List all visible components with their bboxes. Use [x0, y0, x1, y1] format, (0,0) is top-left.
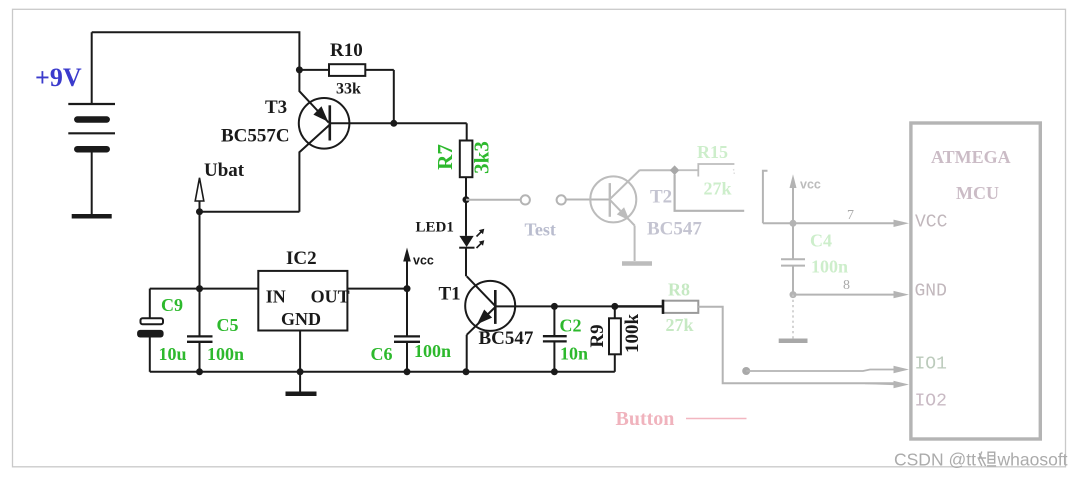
svg-text:C5: C5 — [217, 315, 239, 335]
transistor T1 BC547 — [439, 276, 534, 372]
wire vcc branch vertical — [763, 171, 768, 224]
svg-text:OUT: OUT — [311, 286, 350, 306]
vcc arrow (black) — [403, 248, 434, 289]
svg-text:Test: Test — [525, 220, 556, 240]
node junction at R10/T3 emitter — [296, 66, 303, 73]
regulator IC2 — [258, 248, 349, 331]
resistor R15 (faded) — [679, 142, 735, 199]
resistor R9 — [587, 306, 643, 371]
svg-text:vcc: vcc — [800, 178, 821, 192]
svg-text:BC557C: BC557C — [221, 126, 290, 147]
wire R8 to IO2 — [698, 307, 897, 384]
node vcc/C6 — [404, 285, 411, 292]
svg-text:100k: 100k — [622, 314, 643, 354]
capacitor C6 — [371, 289, 452, 372]
svg-text:T2: T2 — [650, 187, 672, 208]
svg-text:+9V: +9V — [35, 63, 82, 92]
svg-text:7: 7 — [847, 208, 854, 223]
wire IO1 — [746, 370, 897, 372]
node IC2 input — [196, 285, 203, 292]
node IO1 start dot — [742, 367, 750, 375]
wire base row — [330, 122, 467, 124]
node C4/GND row — [790, 291, 797, 298]
wire IC2 OUT to vcc node — [347, 288, 407, 290]
wire bottom ground rail — [150, 371, 615, 373]
node R9 top — [611, 303, 618, 310]
svg-text:vcc: vcc — [413, 254, 434, 268]
node rail C2 — [551, 368, 558, 375]
svg-text:IN: IN — [266, 286, 286, 306]
capacitor C9 — [137, 289, 186, 372]
node rail T1 emitter — [463, 368, 470, 375]
svg-text:VCC: VCC — [915, 212, 948, 232]
ground IC2 — [286, 392, 317, 397]
node rail C5 — [196, 368, 203, 375]
transistor T3 BC557C — [221, 70, 349, 212]
svg-text:ATMEGA: ATMEGA — [931, 147, 1011, 167]
svg-text:IC2: IC2 — [286, 248, 317, 269]
svg-text:C2: C2 — [560, 316, 582, 336]
wire input node row — [150, 288, 258, 290]
svg-text:T1: T1 — [439, 284, 461, 305]
wire diamond to stub — [675, 175, 745, 211]
svg-text:R9: R9 — [587, 324, 608, 347]
svg-text:IO2: IO2 — [915, 392, 947, 412]
capacitor C5 — [187, 289, 244, 372]
svg-text:GND: GND — [281, 309, 321, 329]
svg-text:LED1: LED1 — [416, 220, 454, 236]
svg-text:100n: 100n — [414, 341, 451, 361]
node base of T3 — [390, 120, 397, 127]
node rail IC2 gnd — [297, 368, 304, 375]
svg-text:27k: 27k — [704, 179, 732, 199]
svg-text:3k3: 3k3 — [469, 141, 493, 174]
svg-text:R7: R7 — [433, 144, 457, 170]
wire IO2 end segment — [865, 383, 897, 384]
resistor R7 — [433, 123, 494, 199]
battery B1 — [68, 32, 115, 216]
LED1 — [416, 200, 485, 277]
svg-text:10u: 10u — [159, 344, 187, 364]
wire T1 collector row — [495, 305, 663, 307]
watermark glyph jie — [978, 452, 997, 467]
pin arrow GND — [894, 291, 910, 298]
svg-text:R8: R8 — [668, 280, 690, 300]
svg-text:Ubat: Ubat — [204, 160, 245, 181]
node R7 / test — [463, 196, 470, 203]
node rail C6 — [404, 368, 411, 375]
node diamond junction — [670, 165, 680, 175]
wire collector T3 to Ubat node — [200, 211, 300, 213]
transistor T2 BC547 — [590, 170, 671, 264]
svg-text:100n: 100n — [811, 257, 848, 277]
capacitor C4 — [781, 223, 848, 294]
svg-text:R15: R15 — [697, 142, 728, 162]
wire R10 to base node — [393, 70, 395, 123]
svg-text:R10: R10 — [330, 40, 363, 61]
svg-text:T3: T3 — [265, 97, 287, 118]
wire C4 to ground — [792, 295, 794, 339]
svg-text:MCU: MCU — [956, 183, 999, 203]
pin arrow VCC — [894, 220, 910, 227]
wire GND pin row — [793, 294, 897, 296]
node Ubat — [196, 208, 203, 215]
MCU box ATMEGA — [911, 123, 1040, 439]
resistor R10 — [299, 40, 393, 98]
wire IC2 GND stub — [299, 331, 301, 392]
wire Ubat down to IC2 input — [199, 212, 201, 289]
svg-text:10n: 10n — [560, 344, 588, 364]
svg-text:BC547: BC547 — [479, 328, 534, 349]
svg-text:GND: GND — [915, 282, 947, 302]
node C2 top — [551, 303, 558, 310]
resistor R8 — [615, 280, 699, 336]
vcc arrow (gray) — [790, 174, 821, 223]
Ubat arrow — [195, 160, 245, 212]
svg-text:whaosoft: whaosoft — [997, 450, 1068, 470]
capacitor C2 — [543, 306, 588, 371]
svg-text:C4: C4 — [810, 231, 832, 251]
switch Test — [466, 195, 610, 204]
pin arrow IO1 — [894, 366, 910, 373]
svg-text:BC547: BC547 — [647, 219, 702, 240]
svg-text:IO1: IO1 — [915, 355, 947, 375]
pin arrow IO2 — [894, 381, 910, 388]
wire top rail — [92, 32, 300, 70]
svg-text:C6: C6 — [371, 344, 393, 364]
node vcc/C4 — [790, 220, 797, 227]
svg-text:CSDN @tt: CSDN @tt — [894, 450, 976, 470]
ground C4 — [779, 339, 808, 344]
svg-text:100n: 100n — [207, 344, 244, 364]
svg-text:27k: 27k — [666, 315, 694, 335]
svg-text:Button: Button — [616, 408, 675, 430]
Button dash line — [686, 418, 747, 420]
svg-text:8: 8 — [843, 278, 850, 293]
svg-text:33k: 33k — [336, 81, 361, 98]
svg-text:C9: C9 — [161, 295, 183, 315]
wire VCC pin row — [763, 222, 897, 224]
